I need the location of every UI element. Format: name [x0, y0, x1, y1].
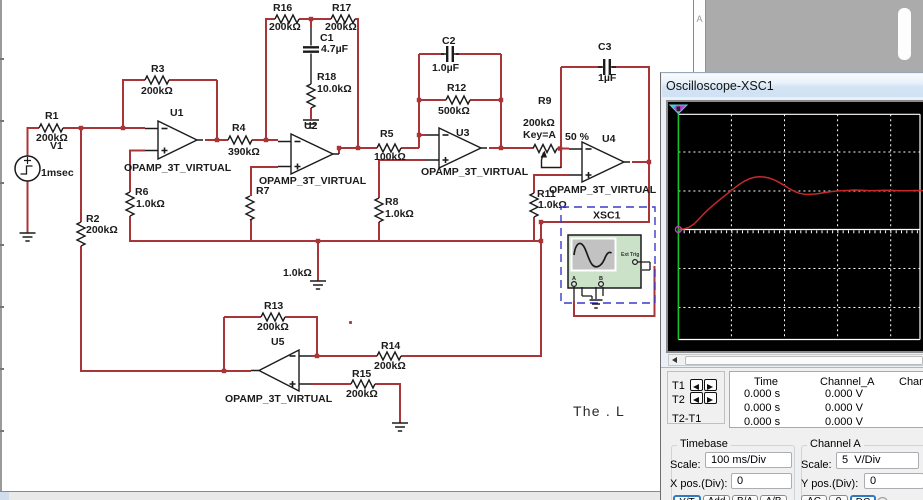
svg-text:R12: R12 [447, 82, 466, 94]
svg-text:1.0kΩ: 1.0kΩ [136, 198, 165, 210]
svg-text:OPAMP_3T_VIRTUAL: OPAMP_3T_VIRTUAL [124, 162, 232, 174]
svg-text:1.0kΩ: 1.0kΩ [385, 208, 414, 220]
svg-text:R18: R18 [317, 71, 336, 83]
svg-text:10.0kΩ: 10.0kΩ [317, 83, 352, 95]
svg-text:1msec: 1msec [41, 167, 74, 179]
svg-text:1µF: 1µF [598, 72, 617, 84]
svg-text:OPAMP_3T_VIRTUAL: OPAMP_3T_VIRTUAL [259, 175, 367, 187]
svg-text:R13: R13 [264, 300, 283, 312]
svg-text:R5: R5 [380, 128, 394, 140]
svg-text:OPAMP_3T_VIRTUAL: OPAMP_3T_VIRTUAL [549, 184, 657, 196]
svg-text:Ext Trig: Ext Trig [621, 252, 639, 258]
svg-text:R14: R14 [381, 340, 400, 352]
svg-text:4.7µF: 4.7µF [321, 43, 349, 55]
svg-text:U3: U3 [456, 127, 470, 139]
svg-text:R15: R15 [352, 368, 371, 380]
svg-text:OPAMP_3T_VIRTUAL: OPAMP_3T_VIRTUAL [421, 166, 529, 178]
svg-text:50 %: 50 % [565, 131, 590, 143]
svg-text:U1: U1 [170, 107, 184, 119]
svg-text:R17: R17 [332, 2, 351, 14]
svg-text:R6: R6 [135, 186, 149, 198]
svg-text:200kΩ: 200kΩ [374, 360, 406, 372]
svg-text:C3: C3 [598, 41, 612, 53]
svg-text:200kΩ: 200kΩ [269, 21, 301, 33]
svg-text:U4: U4 [602, 133, 616, 145]
svg-text:R3: R3 [151, 63, 165, 75]
svg-text:Key=A: Key=A [523, 129, 556, 141]
svg-text:200kΩ: 200kΩ [346, 388, 378, 400]
svg-text:U5: U5 [271, 336, 285, 348]
svg-text:OPAMP_3T_VIRTUAL: OPAMP_3T_VIRTUAL [225, 393, 333, 405]
svg-text:200kΩ: 200kΩ [523, 117, 555, 129]
svg-text:1.0kΩ: 1.0kΩ [538, 199, 567, 211]
svg-text:R4: R4 [232, 122, 246, 134]
svg-text:R1: R1 [45, 110, 59, 122]
svg-text:U2: U2 [304, 120, 318, 132]
svg-text:R9: R9 [538, 95, 552, 107]
svg-text:200kΩ: 200kΩ [257, 321, 289, 333]
svg-text:R16: R16 [273, 2, 292, 14]
svg-text:R8: R8 [385, 196, 399, 208]
svg-text:100kΩ: 100kΩ [374, 151, 406, 163]
svg-text:500kΩ: 500kΩ [438, 105, 470, 117]
svg-text:C2: C2 [442, 35, 456, 47]
svg-text:390kΩ: 390kΩ [228, 146, 260, 158]
svg-text:V1: V1 [50, 140, 63, 152]
svg-text:The . L: The . L [573, 403, 625, 419]
svg-text:XSC1: XSC1 [593, 210, 621, 222]
svg-text:1.0kΩ: 1.0kΩ [283, 267, 312, 279]
svg-text:1.0µF: 1.0µF [432, 62, 460, 74]
svg-text:200kΩ: 200kΩ [86, 224, 118, 236]
svg-text:200kΩ: 200kΩ [141, 85, 173, 97]
